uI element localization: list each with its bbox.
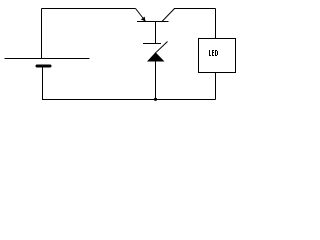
wire: LED box bottom down to bottom rail: [215, 73, 217, 100]
wire: zener anode lead down to bottom rail: [155, 62, 157, 100]
wire: left vertical from top rail down to battery: [41, 9, 43, 59]
zener diode D1 cathode bar: [143, 43, 161, 45]
zener diode D1 anode triangle: [147, 52, 165, 61]
LED box U1: [199, 39, 236, 73]
LED label text (drawn as pixel strokes): [209, 50, 218, 56]
transistor Q1 collector lead (diagonal to top right wire): [162, 9, 175, 22]
transistor Q1 base bar: [137, 21, 169, 23]
transistor Q1 emitter lead (diagonal from top rail): [136, 9, 146, 22]
battery V1 negative plate (short thick): [37, 65, 50, 68]
wire: bottom rail: [42, 99, 216, 101]
transistor Q1 emitter arrowhead: [141, 17, 146, 22]
battery V1 positive plate (long): [5, 58, 90, 60]
wire: top rail right segment to LED: [174, 8, 216, 10]
wire: battery negative lead down to bottom rail: [42, 68, 44, 100]
wire: vertical down into LED box top: [215, 9, 217, 39]
wire: transistor base lead down to zener: [155, 22, 157, 44]
wire: top rail left segment: [42, 8, 136, 10]
junction dot on bottom rail: [154, 98, 157, 101]
zener diode D1 diagonal tail: [155, 42, 167, 54]
